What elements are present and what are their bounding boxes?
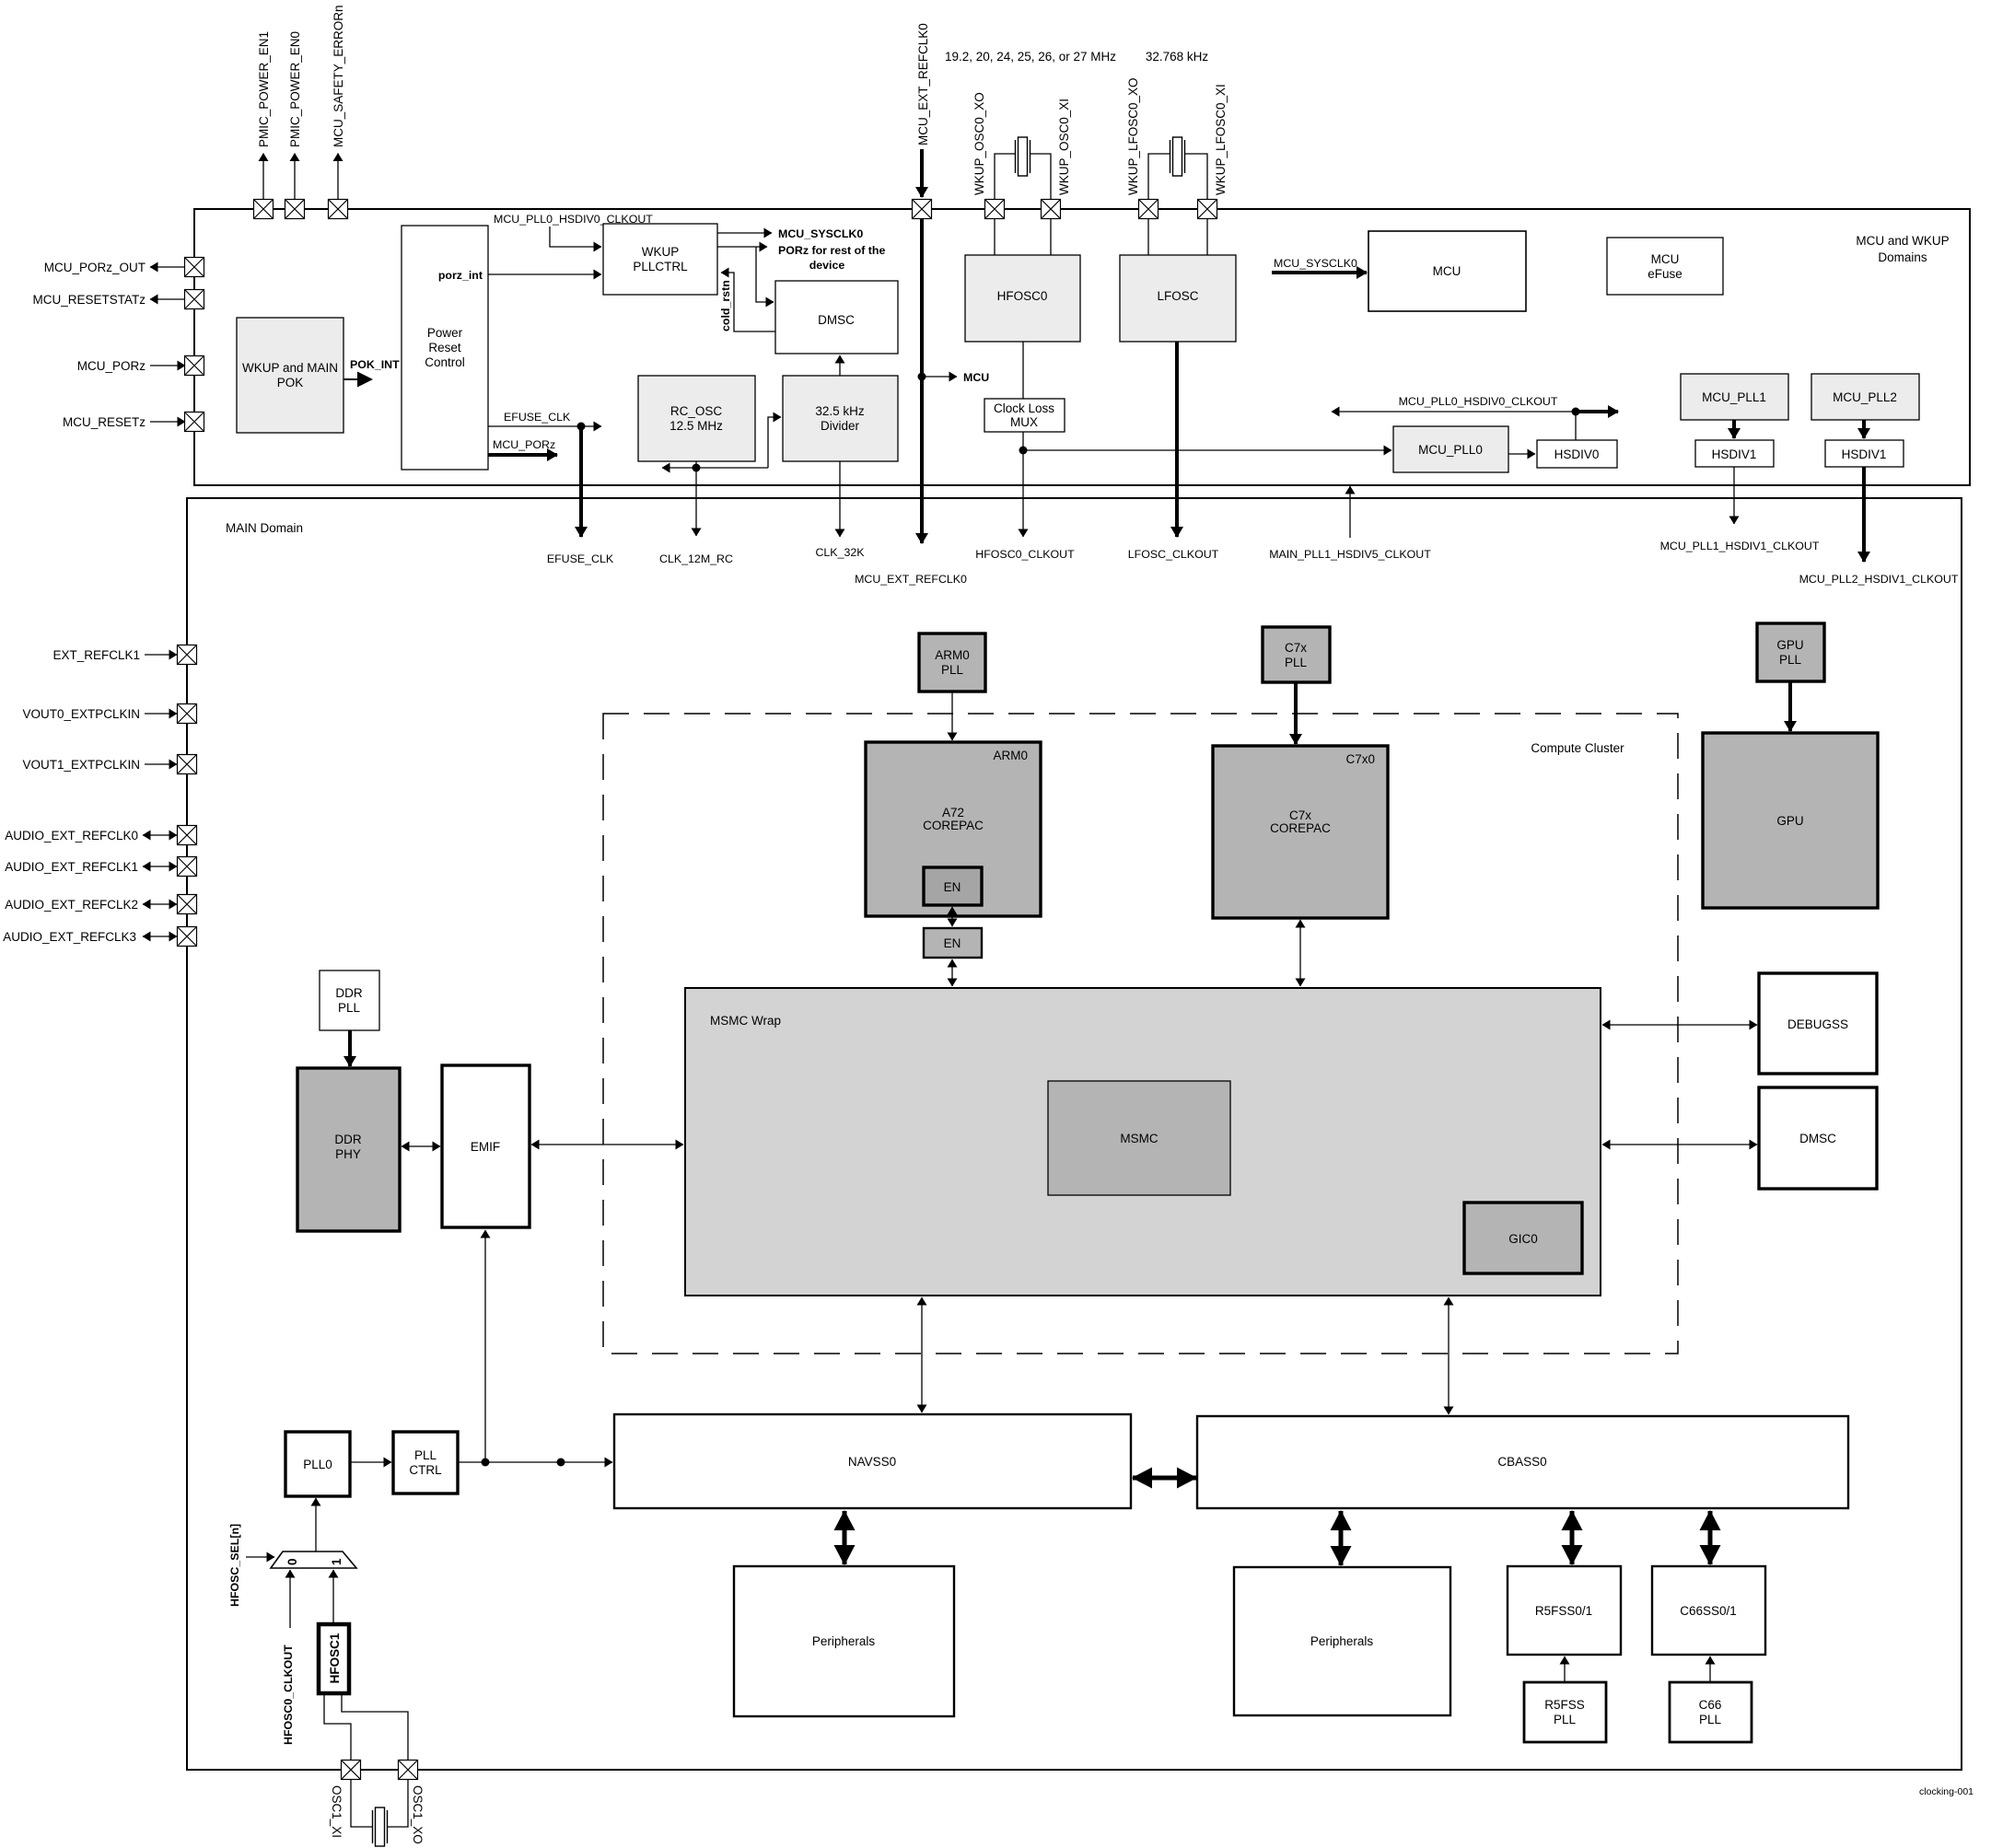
svg-text:19.2, 20, 24, 25, 26, or 27 MH: 19.2, 20, 24, 25, 26, or 27 MHz	[945, 50, 1116, 64]
wire CBASS0 to C66SS mega	[1708, 1511, 1713, 1564]
wire MCU_PLL1 to HSDIV1	[1732, 420, 1736, 438]
terminal WKUP_OSC0_XI	[1042, 200, 1061, 219]
svg-text:PHY: PHY	[335, 1147, 361, 1161]
svg-text:CLK_12M_RC: CLK_12M_RC	[659, 552, 733, 565]
svg-text:HFOSC1: HFOSC1	[328, 1633, 342, 1683]
wire MCU branch arrow	[922, 376, 957, 378]
block A72 COREPAC	[866, 742, 1041, 916]
svg-text:MCU_RESETz: MCU_RESETz	[63, 415, 146, 429]
svg-text:DDR: DDR	[335, 986, 362, 1000]
svg-text:HFOSC0: HFOSC0	[997, 289, 1048, 303]
block DMSC wkup	[775, 281, 898, 354]
wire crystal LFOSC0 right lead	[1185, 154, 1207, 200]
junction EFUSE_CLK	[577, 423, 586, 431]
wire HFOSC0 to Clock Loss MUX	[1022, 342, 1024, 399]
block RC_OSC 12.5 MHz	[638, 376, 755, 461]
wire WKUP_LFOSC0_XO to LFOSC	[1147, 219, 1149, 256]
svg-text:MSMC Wrap: MSMC Wrap	[710, 1014, 781, 1028]
wire MCU_EXT_REFCLK0 down through chip	[920, 219, 924, 544]
junction HSDIV0 out	[1572, 408, 1580, 416]
block PLL CTRL	[393, 1432, 458, 1494]
svg-text:WKUP_LFOSC0_XI: WKUP_LFOSC0_XI	[1214, 84, 1228, 195]
svg-text:MCU_PORz: MCU_PORz	[77, 359, 146, 373]
block NAVSS0	[614, 1414, 1131, 1508]
block CBASS0	[1197, 1416, 1848, 1508]
svg-text:PMIC_POWER_EN0: PMIC_POWER_EN0	[288, 31, 302, 147]
wire EFUSE_CLK down to MAIN	[579, 426, 583, 537]
svg-text:device: device	[809, 259, 845, 272]
terminal OSC1_XO	[399, 1761, 418, 1780]
svg-text:cold_rstn: cold_rstn	[719, 280, 732, 331]
wire PMIC_POWER_EN0 arrow out	[294, 154, 296, 200]
wire OSC1 crystal right lead	[388, 1780, 408, 1828]
wire LFOSC_CLKOUT down	[1175, 342, 1179, 537]
mux HFOSC select	[271, 1552, 356, 1568]
svg-text:Divider: Divider	[821, 419, 860, 433]
wire MCU_PLL1_HSDIV1_CLKOUT down	[1733, 467, 1735, 524]
block LFOSC	[1120, 255, 1236, 342]
wire CBASS0 to R5FSS mega	[1570, 1511, 1575, 1564]
svg-text:WKUP: WKUP	[642, 245, 680, 259]
svg-text:Reset: Reset	[428, 341, 461, 354]
svg-text:MCU_SAFETY_ERRORn: MCU_SAFETY_ERRORn	[332, 5, 345, 147]
svg-text:MCU_EXT_REFCLK0: MCU_EXT_REFCLK0	[855, 573, 967, 586]
wire VOUT1_EXTPCLKIN in	[145, 763, 177, 765]
wire NAVSS0 to Peripherals left mega	[843, 1511, 847, 1564]
svg-text:PLLCTRL: PLLCTRL	[633, 260, 688, 273]
wire EMIF riser up	[484, 1230, 486, 1462]
svg-text:MCU_PLL1_HSDIV1_CLKOUT: MCU_PLL1_HSDIV1_CLKOUT	[1660, 540, 1820, 552]
wire mux input 0 from HFOSC0_CLKOUT	[289, 1570, 291, 1628]
svg-text:clocking-001: clocking-001	[1919, 1786, 1974, 1797]
terminal WKUP_OSC0_XO	[985, 200, 1005, 219]
svg-text:HSDIV1: HSDIV1	[1712, 447, 1757, 461]
wire mux to PLL0	[315, 1498, 317, 1552]
wire AUDIO_EXT_REFCLK0 bidir	[143, 834, 177, 836]
svg-text:HSDIV0: HSDIV0	[1554, 447, 1600, 461]
block ARM0 PLL	[919, 633, 985, 692]
svg-text:EMIF: EMIF	[471, 1140, 500, 1154]
block DEBUGSS	[1759, 973, 1877, 1074]
wire MAIN_PLL1_HSDIV5_CLKOUT up	[1349, 486, 1351, 538]
svg-text:MCU_RESETSTATz: MCU_RESETSTATz	[32, 293, 146, 307]
svg-text:COREPAC: COREPAC	[1270, 821, 1331, 835]
terminal PMIC_POWER_EN1	[254, 200, 274, 219]
block C66SS0/1	[1652, 1566, 1765, 1655]
svg-text:MUX: MUX	[1010, 415, 1038, 429]
wire AUDIO_EXT_REFCLK1 bidir	[143, 866, 177, 867]
wire MCU_PLL0_HSDIV0_CLKOUT thick arrow	[1576, 410, 1618, 413]
wire mux input 1 from HFOSC1	[332, 1570, 334, 1624]
block MCU_PLL1	[1681, 374, 1788, 420]
svg-text:POK: POK	[277, 376, 304, 389]
block MSMC Wrap	[685, 988, 1601, 1296]
wire divider to DMSC arrow	[839, 355, 841, 376]
junction MCU branch	[918, 373, 926, 381]
wire POK_INT arrow	[343, 378, 359, 380]
terminal MCU_EXT_REFCLK0	[913, 200, 932, 219]
svg-text:12.5 MHz: 12.5 MHz	[669, 419, 723, 433]
wire WKUP_OSC0_XI to HFOSC0	[1050, 219, 1052, 256]
block MCU eFuse	[1607, 238, 1723, 295]
svg-text:Clock Loss: Clock Loss	[994, 401, 1054, 415]
wire HFOSC_SEL into mux	[246, 1556, 274, 1558]
wire HFOSC1 to OSC1_XO	[342, 1695, 408, 1760]
svg-text:MCU_PLL0: MCU_PLL0	[1418, 443, 1483, 457]
block EMIF	[442, 1065, 530, 1227]
svg-text:Peripherals: Peripherals	[812, 1634, 876, 1648]
terminal WKUP_LFOSC0_XI	[1198, 200, 1217, 219]
block MSMC	[1048, 1081, 1230, 1195]
wire MCU_SYSCLK0 thick arrow to MCU	[1272, 271, 1367, 274]
junction RC_OSC output	[693, 464, 701, 472]
wire cold_rstn DMSC to PLLCTRL	[721, 273, 775, 331]
svg-text:HFOSC0_CLKOUT: HFOSC0_CLKOUT	[975, 548, 1075, 561]
svg-text:VOUT1_EXTPCLKIN: VOUT1_EXTPCLKIN	[22, 758, 140, 772]
svg-text:WKUP and MAIN: WKUP and MAIN	[242, 361, 338, 375]
svg-text:C66SS0/1: C66SS0/1	[1680, 1604, 1737, 1618]
svg-text:MCU_PORz: MCU_PORz	[493, 438, 555, 451]
terminal AUDIO_EXT_REFCLK3	[178, 927, 197, 947]
wire OSC1 crystal left lead	[351, 1780, 372, 1828]
svg-text:WKUP_OSC0_XO: WKUP_OSC0_XO	[972, 92, 986, 195]
wire PLL CTRL to NAVSS0	[458, 1461, 612, 1463]
wire CLK_32K down	[839, 461, 841, 537]
svg-text:EN: EN	[944, 880, 961, 894]
wire crystal LFOSC0 left lead	[1148, 154, 1170, 200]
wire PMIC_POWER_EN1 arrow out	[262, 154, 264, 200]
svg-text:C7x: C7x	[1289, 808, 1311, 822]
wire MCU_PORz out thick	[488, 453, 557, 457]
svg-text:PLL: PLL	[1554, 1713, 1577, 1726]
svg-text:PLL: PLL	[941, 663, 964, 677]
svg-text:WKUP_OSC0_XI: WKUP_OSC0_XI	[1057, 99, 1071, 195]
svg-text:PLL0: PLL0	[303, 1458, 332, 1471]
block HSDIV1 first	[1695, 440, 1774, 467]
terminal MCU_RESETSTATz	[185, 290, 204, 309]
wire HFOSC0 branch to MCU_PLL0	[1023, 449, 1391, 451]
svg-text:AUDIO_EXT_REFCLK1: AUDIO_EXT_REFCLK1	[5, 860, 138, 874]
terminal MCU_PORz_OUT	[185, 258, 204, 277]
svg-text:C66: C66	[1699, 1698, 1722, 1712]
svg-text:PLL: PLL	[414, 1448, 437, 1462]
wire C7x COREPAC to MSMC Wrap bidir	[1299, 920, 1301, 986]
svg-text:R5FSS: R5FSS	[1544, 1698, 1585, 1712]
svg-text:RC_OSC: RC_OSC	[670, 404, 723, 418]
svg-text:MCU_PLL2_HSDIV1_CLKOUT: MCU_PLL2_HSDIV1_CLKOUT	[1799, 573, 1959, 586]
block MCU	[1368, 231, 1526, 311]
svg-text:PLL: PLL	[1699, 1713, 1722, 1726]
svg-text:GPU: GPU	[1776, 638, 1803, 652]
svg-text:Compute Cluster: Compute Cluster	[1531, 741, 1624, 755]
wire porz_int to WKUP PLLCTRL	[488, 273, 601, 275]
svg-text:ARM0: ARM0	[993, 749, 1028, 762]
wire GPU PLL to GPU thick	[1788, 681, 1792, 731]
svg-text:CTRL: CTRL	[409, 1463, 442, 1477]
block C66 PLL	[1670, 1682, 1752, 1742]
dashed Compute Cluster boundary	[603, 714, 1678, 1354]
svg-text:32.5 kHz: 32.5 kHz	[815, 404, 865, 418]
svg-text:MAIN_PLL1_HSDIV5_CLKOUT: MAIN_PLL1_HSDIV5_CLKOUT	[1269, 548, 1431, 561]
wire MSMC Wrap to DEBUGSS bidir	[1602, 1024, 1757, 1026]
crystal OSC1	[373, 1807, 388, 1846]
svg-text:HFOSC0_CLKOUT: HFOSC0_CLKOUT	[282, 1645, 295, 1745]
svg-text:MCU_SYSCLK0: MCU_SYSCLK0	[1274, 257, 1357, 270]
block MCU_PLL2	[1811, 374, 1919, 420]
terminal AUDIO_EXT_REFCLK2	[178, 895, 197, 914]
block DDR PLL	[320, 970, 379, 1030]
wire MCU_PORz arrow in	[150, 365, 185, 366]
wire EFUSE_CLK out	[488, 425, 601, 427]
terminal WKUP_LFOSC0_XO	[1139, 200, 1159, 219]
svg-text:MCU_PLL2: MCU_PLL2	[1833, 390, 1897, 404]
wire WKUP_LFOSC0_XI to LFOSC	[1206, 219, 1208, 256]
block HFOSC1	[319, 1624, 349, 1693]
svg-text:MCU_PLL1: MCU_PLL1	[1702, 390, 1766, 404]
wire NAVSS0 to CBASS0 mega bidir	[1133, 1476, 1196, 1481]
block DDR PHY	[297, 1068, 400, 1231]
block C7x PLL	[1263, 627, 1330, 682]
MCU and WKUP Domains box	[194, 209, 1970, 485]
svg-text:OSC1_XO: OSC1_XO	[411, 1785, 425, 1844]
wire crystal OSC0 left lead	[995, 154, 1015, 200]
svg-text:DMSC: DMSC	[1799, 1132, 1836, 1145]
terminal VOUT1_EXTPCLKIN	[178, 755, 197, 774]
junction HFOSC0 branch	[1019, 447, 1028, 455]
crystal WKUP_OSC0	[1016, 137, 1030, 176]
terminal MCU_SAFETY_ERRORn	[329, 200, 348, 219]
wire PLL0 to PLL CTRL	[350, 1461, 391, 1463]
wire ARM0 PLL to A72	[951, 692, 953, 740]
terminal AUDIO_EXT_REFCLK1	[178, 857, 197, 877]
svg-text:0: 0	[285, 1558, 299, 1565]
svg-text:MAIN Domain: MAIN Domain	[226, 521, 303, 535]
terminal AUDIO_EXT_REFCLK0	[178, 826, 197, 845]
svg-text:PMIC_POWER_EN1: PMIC_POWER_EN1	[257, 31, 271, 147]
terminal PMIC_POWER_EN0	[285, 200, 305, 219]
block PLL0	[285, 1432, 350, 1496]
wire crystal OSC0 right lead	[1030, 154, 1051, 200]
wire WKUP_OSC0_XO to HFOSC0	[994, 219, 995, 256]
svg-text:WKUP_LFOSC0_XO: WKUP_LFOSC0_XO	[1126, 77, 1140, 195]
wire AUDIO_EXT_REFCLK3 bidir	[143, 936, 177, 937]
block MCU_PLL0	[1393, 426, 1508, 472]
svg-text:MCU and WKUP: MCU and WKUP	[1856, 234, 1949, 248]
svg-text:EXT_REFCLK1: EXT_REFCLK1	[52, 648, 140, 662]
wire DDR PHY to EMIF bidir	[402, 1145, 440, 1147]
block HFOSC0	[965, 255, 1080, 342]
svg-text:32.768 kHz: 32.768 kHz	[1146, 50, 1209, 64]
svg-text:CLK_32K: CLK_32K	[815, 546, 865, 559]
wire PORz out of PLLCTRL	[717, 246, 767, 248]
svg-text:1: 1	[330, 1558, 343, 1565]
wire HFOSC0_CLKOUT down	[1022, 432, 1024, 537]
terminal EXT_REFCLK1	[178, 645, 197, 665]
wire C7x PLL to C7x COREPAC thick	[1294, 682, 1298, 744]
block GPU PLL	[1757, 623, 1824, 681]
svg-text:R5FSS0/1: R5FSS0/1	[1535, 1604, 1592, 1618]
svg-text:eFuse: eFuse	[1648, 267, 1682, 281]
svg-text:C7x0: C7x0	[1345, 752, 1375, 766]
svg-text:PLL: PLL	[1779, 653, 1802, 667]
wire AUDIO_EXT_REFCLK2 bidir	[143, 903, 177, 905]
wire MCU_PLL0_HSDIV0_CLKOUT into PLLCTRL	[550, 227, 601, 247]
svg-text:LFOSC_CLKOUT: LFOSC_CLKOUT	[1128, 548, 1219, 561]
crystal WKUP_LFOSC0	[1170, 137, 1185, 176]
svg-text:MSMC: MSMC	[1120, 1132, 1158, 1145]
svg-text:POK_INT: POK_INT	[350, 358, 400, 371]
block Power Reset Control	[402, 226, 488, 470]
wire MCU_PLL2 to HSDIV1	[1862, 420, 1866, 438]
wire CLK_12M_RC down	[695, 468, 697, 536]
block C7x COREPAC	[1213, 746, 1388, 918]
wire MCU_RESETSTATz arrow out	[150, 298, 186, 300]
wire HFOSC1 to OSC1_XI	[324, 1695, 351, 1760]
wire HSDIV0 riser	[1575, 412, 1577, 440]
wire MCU_SAFETY_ERRORn arrow out	[337, 154, 339, 200]
wire MSMC Wrap to NAVSS0 bidir	[921, 1297, 923, 1412]
svg-text:AUDIO_EXT_REFCLK2: AUDIO_EXT_REFCLK2	[5, 898, 138, 912]
block R5FSS PLL	[1524, 1682, 1606, 1742]
svg-text:DEBUGSS: DEBUGSS	[1787, 1017, 1848, 1031]
junction EMIF riser	[482, 1459, 490, 1467]
svg-text:Power: Power	[427, 326, 463, 340]
block WKUP and MAIN POK	[237, 318, 343, 433]
wire C66 PLL to C66SS	[1709, 1656, 1711, 1682]
svg-text:NAVSS0: NAVSS0	[848, 1455, 896, 1469]
svg-text:GPU: GPU	[1776, 814, 1803, 828]
block Clock Loss MUX	[984, 399, 1065, 432]
terminal VOUT0_EXTPCLKIN	[178, 704, 197, 724]
wire EN to EN bidir	[951, 907, 953, 926]
svg-text:MCU: MCU	[1433, 264, 1461, 278]
block DMSC main	[1759, 1087, 1877, 1189]
wire MCU_PLL0 to HSDIV0	[1508, 453, 1535, 455]
svg-text:ARM0: ARM0	[935, 648, 970, 662]
block R5FSS0/1	[1508, 1566, 1621, 1655]
svg-text:COREPAC: COREPAC	[923, 819, 984, 832]
wire PORz branch to DMSC	[756, 247, 774, 302]
wire MCU_EXT_REFCLK0 into chip	[920, 149, 924, 197]
svg-text:DDR: DDR	[334, 1133, 361, 1146]
svg-text:AUDIO_EXT_REFCLK3: AUDIO_EXT_REFCLK3	[3, 930, 136, 944]
block EN outer	[924, 928, 982, 958]
wire MCU_PORz_OUT arrow out	[150, 266, 186, 268]
wire EXT_REFCLK1 in	[145, 654, 177, 656]
svg-text:HSDIV1: HSDIV1	[1842, 447, 1887, 461]
svg-text:PLL: PLL	[338, 1001, 361, 1015]
svg-text:porz_int: porz_int	[438, 269, 483, 282]
svg-text:EN: EN	[944, 936, 961, 950]
wire MSMC Wrap to DMSC bidir	[1602, 1144, 1757, 1145]
block WKUP PLLCTRL	[603, 224, 717, 295]
svg-text:Peripherals: Peripherals	[1310, 1634, 1374, 1648]
svg-text:EFUSE_CLK: EFUSE_CLK	[547, 552, 614, 565]
svg-text:Domains: Domains	[1878, 250, 1927, 264]
block GPU	[1703, 733, 1878, 908]
svg-text:MCU_SYSCLK0: MCU_SYSCLK0	[778, 227, 863, 240]
svg-text:PORz for rest of the: PORz for rest of the	[778, 244, 885, 257]
wire DDR PLL to DDR PHY thick	[348, 1030, 352, 1066]
wire EMIF to MSMC Wrap bidir	[531, 1144, 683, 1145]
wire RC_OSC left arrow	[662, 467, 768, 469]
svg-text:MCU_PLL0_HSDIV0_CLKOUT: MCU_PLL0_HSDIV0_CLKOUT	[1399, 395, 1558, 408]
svg-text:MCU_EXT_REFCLK0: MCU_EXT_REFCLK0	[916, 23, 930, 145]
svg-text:DMSC: DMSC	[818, 313, 855, 327]
wire R5FSS PLL to R5FSS	[1564, 1656, 1566, 1682]
svg-text:PLL: PLL	[1285, 656, 1308, 669]
svg-text:VOUT0_EXTPCLKIN: VOUT0_EXTPCLKIN	[22, 707, 140, 721]
wire RC_OSC to divider	[768, 417, 781, 468]
wire MCU_PLL0_HSDIV0_CLKOUT bus	[1332, 411, 1576, 413]
svg-text:OSC1_XI: OSC1_XI	[330, 1785, 343, 1838]
block Peripherals left	[734, 1566, 954, 1716]
block GIC0	[1464, 1203, 1582, 1273]
svg-text:EFUSE_CLK: EFUSE_CLK	[504, 411, 571, 424]
svg-text:LFOSC: LFOSC	[1157, 289, 1198, 303]
wire MCU_PLL2_HSDIV1_CLKOUT down thick	[1862, 467, 1866, 562]
wire MCU_SYSCLK0 out of PLLCTRL	[717, 232, 772, 234]
terminal MCU_RESETz	[185, 413, 204, 432]
svg-text:GIC0: GIC0	[1508, 1232, 1538, 1246]
block HSDIV0	[1537, 440, 1617, 468]
svg-text:C7x: C7x	[1285, 641, 1307, 655]
block EN inner	[924, 867, 982, 905]
wire MCU_RESETz arrow in	[150, 421, 185, 423]
wire MSMC Wrap to CBASS0 bidir	[1448, 1297, 1450, 1414]
svg-text:MCU: MCU	[963, 371, 989, 384]
terminal OSC1_XI	[342, 1761, 361, 1780]
svg-text:A72: A72	[942, 806, 964, 819]
svg-text:CBASS0: CBASS0	[1497, 1455, 1546, 1469]
block 32.5 kHz Divider	[783, 376, 898, 461]
MAIN Domain box	[187, 498, 1962, 1770]
block HSDIV1 second	[1825, 440, 1904, 467]
wire CBASS0 to Peripherals right mega	[1339, 1511, 1344, 1565]
svg-text:HFOSC_SEL[n]: HFOSC_SEL[n]	[228, 1524, 241, 1607]
svg-text:Control: Control	[425, 355, 465, 369]
svg-text:AUDIO_EXT_REFCLK0: AUDIO_EXT_REFCLK0	[5, 829, 138, 843]
block Peripherals right	[1234, 1567, 1450, 1715]
wire RC_OSC bottom tee	[695, 461, 697, 468]
junction PLL wire	[557, 1459, 565, 1467]
terminal MCU_PORz	[185, 356, 204, 376]
wire VOUT0_EXTPCLKIN in	[145, 713, 177, 715]
svg-text:MCU: MCU	[1651, 252, 1680, 266]
svg-text:MCU_PORz_OUT: MCU_PORz_OUT	[44, 261, 146, 274]
wire EN to MSMC Wrap bidir	[951, 959, 953, 986]
